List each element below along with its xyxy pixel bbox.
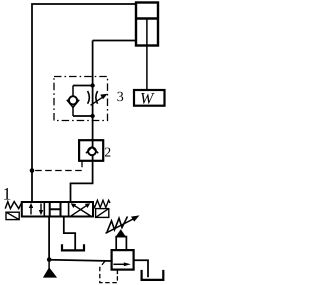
- pilot line (dashed) from rail A to valve 2: [32, 161, 82, 171]
- right solenoid: [96, 209, 109, 218]
- right spring: [93, 200, 110, 207]
- throttle adjust arrow (box 3): [91, 96, 105, 105]
- directional valve 1 dividers: [44, 202, 68, 217]
- wire box3 to check valve 2: [92, 116, 94, 148]
- left spring: [5, 202, 22, 209]
- svg-text:3: 3: [117, 90, 124, 105]
- right position crossed arrow 2: [71, 205, 88, 216]
- cylinder piston: [136, 17, 158, 20]
- wire pump port P down: [48, 217, 50, 260]
- relief valve body: [112, 250, 134, 270]
- check valve seat (box 3): [67, 100, 79, 108]
- cylinder rod: [146, 20, 148, 91]
- svg-text:W: W: [140, 91, 155, 108]
- wire inner top branch: [73, 85, 93, 87]
- svg-text:2: 2: [104, 144, 111, 159]
- relief valve neck: [116, 237, 126, 251]
- left solenoid: [6, 212, 19, 219]
- relief valve cone: [115, 229, 126, 237]
- relief valve spring: [107, 217, 128, 233]
- wire relief outlet to tank: [134, 260, 148, 277]
- relief valve internal arrow: [113, 263, 124, 265]
- pressure source triangle: [48, 260, 50, 269]
- weight box W: [134, 90, 165, 106]
- node supply junction: [47, 257, 52, 262]
- svg-text:1: 1: [3, 183, 12, 203]
- check valve ball (valve 2): [88, 147, 96, 155]
- relief valve spring arrow: [106, 219, 135, 234]
- cylinder C barrel: [136, 3, 158, 46]
- check valve ball (box 3): [69, 96, 77, 104]
- wire supply rail to relief valve: [49, 260, 111, 261]
- directional valve 1 body: [22, 202, 93, 217]
- node bottom junction in box 3: [90, 114, 94, 118]
- enclosure box component 3 (dash-dot): [54, 77, 108, 121]
- left position up arrow: [30, 206, 32, 215]
- wire tank port T down to tank: [64, 217, 75, 251]
- node top junction in box 3: [90, 83, 94, 87]
- tank symbol under valve: [62, 244, 84, 250]
- wire inner bottom branch: [73, 115, 93, 117]
- relief pilot drain (dashed): [100, 261, 118, 282]
- right position crossed arrow 1: [73, 205, 90, 216]
- wire valve 2 to directional valve port B: [71, 155, 93, 202]
- centre position H symbol: [50, 202, 61, 217]
- check valve branch line upper: [72, 86, 74, 97]
- tank symbol bottom right: [142, 270, 164, 280]
- wire top rail A: valve port A up and across to cylinder cap end: [32, 4, 136, 202]
- check valve branch line lower: [72, 107, 74, 116]
- throttle arcs (box 3): [88, 91, 98, 104]
- wire main vertical line to one-way throttle: [92, 41, 94, 117]
- wire rod-end port to main line: [93, 40, 136, 42]
- check valve seat (valve 2): [86, 147, 98, 153]
- node pilot junction on rail A: [30, 168, 35, 173]
- relief drain stub: [116, 270, 118, 275]
- pilot check valve 2 body: [79, 140, 103, 161]
- left position down arrow: [40, 204, 42, 212]
